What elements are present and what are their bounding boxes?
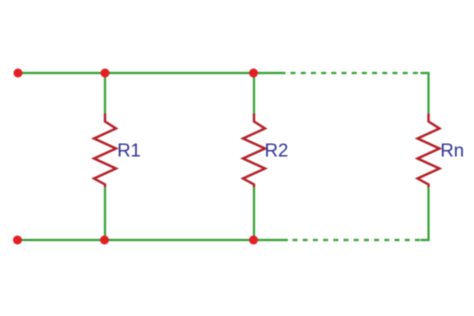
svg-text:Rn: Rn: [440, 140, 464, 161]
svg-text:R2: R2: [265, 140, 289, 161]
svg-text:R1: R1: [117, 140, 141, 161]
